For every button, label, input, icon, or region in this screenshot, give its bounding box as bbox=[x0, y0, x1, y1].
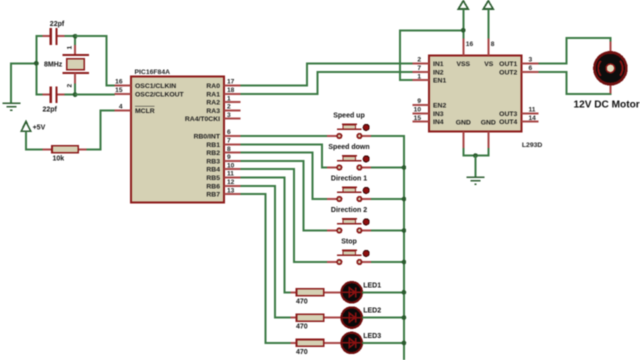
svg-text:7: 7 bbox=[417, 65, 421, 72]
motor M1 bottom pin stub bbox=[609, 85, 611, 93]
ground symbol left bbox=[2, 103, 20, 110]
svg-text:8: 8 bbox=[227, 146, 231, 153]
svg-text:IN2: IN2 bbox=[433, 69, 444, 76]
label LED3 bbox=[363, 333, 381, 340]
resistor R4 470 (LED3) bbox=[290, 340, 342, 347]
pin 1 number bbox=[227, 95, 231, 102]
svg-text:L293D: L293D bbox=[522, 142, 542, 149]
svg-text:1: 1 bbox=[227, 95, 231, 102]
IC U2 L293D body bbox=[429, 55, 521, 131]
label Stop bbox=[341, 239, 357, 246]
pin 16 name VSS bbox=[456, 61, 470, 68]
button SW2 Speed down bbox=[327, 156, 371, 170]
pin 6 name RB0/INT bbox=[194, 134, 221, 141]
pin 15 name IN4 bbox=[433, 119, 444, 126]
svg-text:14: 14 bbox=[529, 115, 537, 122]
pin 3 stub OUT1 bbox=[521, 63, 538, 65]
svg-text:OUT1: OUT1 bbox=[499, 61, 517, 68]
pin 18 name RA1 bbox=[206, 91, 220, 98]
wire: LED1 to column bbox=[362, 291, 404, 293]
wire: RB5 down to LED1 row bbox=[241, 178, 291, 293]
pin 8 number bbox=[227, 146, 231, 153]
pin 16 stub VSS (top) bbox=[462, 39, 464, 56]
wire: Direction-1 button to column bbox=[371, 198, 404, 200]
svg-text:LED3: LED3 bbox=[363, 333, 381, 340]
junction node: GND mid bbox=[473, 153, 478, 158]
label Speed down bbox=[328, 144, 369, 151]
label C2 value 22pf bbox=[43, 107, 58, 114]
svg-text:RB6: RB6 bbox=[206, 183, 220, 190]
svg-text:RB5: RB5 bbox=[206, 175, 220, 182]
wire: RB7 down to LED3 row bbox=[241, 194, 291, 343]
junction node: column at LED3 bbox=[402, 341, 407, 346]
IC U1 PIC16F84A body bbox=[131, 77, 224, 203]
pin 13 stub RB7 bbox=[224, 193, 241, 195]
svg-text:VS: VS bbox=[484, 61, 494, 68]
svg-text:10: 10 bbox=[227, 162, 235, 169]
pin 3 name OUT1 bbox=[499, 61, 517, 68]
junction node: rail to ground bbox=[34, 61, 39, 66]
pin 12 name RB6 bbox=[206, 183, 220, 190]
pin 17 stub RA0 bbox=[224, 85, 241, 87]
LED D2 bbox=[342, 307, 362, 327]
crystal pin number 2 (rotated) bbox=[67, 84, 74, 88]
svg-text:16: 16 bbox=[466, 41, 474, 48]
crystal pin number 1 (rotated) bbox=[67, 46, 74, 50]
svg-text:3: 3 bbox=[529, 57, 533, 64]
pin 1 stub EN1 bbox=[412, 79, 429, 81]
svg-text:Direction 1: Direction 1 bbox=[331, 176, 367, 183]
svg-text:IN1: IN1 bbox=[433, 61, 444, 68]
wire: common +5V column (right of buttons) bbox=[371, 136, 404, 360]
pin 12 stub RB6 bbox=[224, 185, 241, 187]
svg-text:7: 7 bbox=[227, 138, 231, 145]
label Direction 1 bbox=[331, 176, 367, 183]
svg-text:470: 470 bbox=[296, 324, 308, 331]
wire: crystal top lead bbox=[74, 35, 76, 45]
junction node: column at LED2 bbox=[402, 315, 407, 320]
capacitor C2 22pf (bottom) bbox=[43, 86, 65, 103]
wire: GND pins joined bbox=[463, 148, 488, 156]
pin 16 number bbox=[115, 79, 123, 86]
svg-text:EN1: EN1 bbox=[433, 78, 446, 85]
pin 10 number bbox=[227, 162, 235, 169]
wire: C1 right to crystal-top node bbox=[65, 35, 76, 37]
wire: C2 right to crystal-bottom node bbox=[65, 94, 76, 96]
junction node: column at Direction-1 bbox=[402, 197, 407, 202]
svg-text:RB1: RB1 bbox=[206, 142, 220, 149]
pin 6 number bbox=[529, 65, 533, 72]
pin 10 name RB4 bbox=[206, 167, 220, 174]
pin 11 stub RB5 bbox=[224, 177, 241, 179]
wire: RB3 to Direction-2 button bbox=[241, 161, 327, 231]
svg-text:LED2: LED2 bbox=[363, 308, 381, 315]
svg-text:2: 2 bbox=[417, 57, 421, 64]
pin 6 number bbox=[227, 129, 231, 136]
svg-text:470: 470 bbox=[296, 349, 308, 356]
junction node: column at LED1 bbox=[402, 290, 407, 295]
label LED1 bbox=[363, 282, 381, 289]
svg-text:Speed down: Speed down bbox=[328, 144, 369, 151]
pin 4 stub MCLR bbox=[115, 109, 131, 111]
pin 13 name RB7 bbox=[206, 192, 220, 199]
svg-text:12: 12 bbox=[227, 179, 235, 186]
LED D3 bbox=[342, 333, 362, 353]
wire: crystal-top node to OSC1 (pin16) bbox=[75, 36, 115, 85]
pin 8 name RB2 bbox=[206, 150, 220, 157]
wire: crystal-bottom node to OSC2 (pin15) bbox=[75, 93, 115, 95]
pin 11 name RB5 bbox=[206, 175, 220, 182]
svg-text:RA1: RA1 bbox=[206, 91, 220, 98]
wire: +5V rail to EN1 bbox=[400, 30, 463, 80]
svg-text:4: 4 bbox=[119, 104, 123, 111]
pin 4 name MCLR (overbar) bbox=[135, 106, 155, 115]
svg-text:1: 1 bbox=[67, 46, 74, 50]
svg-text:11: 11 bbox=[529, 107, 536, 114]
pin 15 number bbox=[414, 115, 422, 122]
junction node: C2/crystal/OSC2 bbox=[73, 92, 78, 97]
pin 9 name EN2 bbox=[433, 103, 446, 110]
svg-text:1: 1 bbox=[417, 73, 421, 80]
svg-text:RB2: RB2 bbox=[206, 150, 220, 157]
crystal X1 8MHz bbox=[63, 45, 89, 85]
svg-text:2: 2 bbox=[227, 104, 231, 111]
svg-text:IN3: IN3 bbox=[433, 111, 444, 118]
label motor 12V DC Motor bbox=[574, 100, 640, 111]
pin 7 stub IN2 bbox=[412, 71, 429, 73]
svg-text:OUT2: OUT2 bbox=[499, 69, 517, 76]
pin 4 number bbox=[119, 104, 123, 111]
capacitor C1 22pf (top) bbox=[43, 28, 65, 45]
svg-text:22pf: 22pf bbox=[50, 21, 65, 28]
pin 9 name RB3 bbox=[206, 158, 220, 165]
pin 6 stub OUT2 bbox=[521, 71, 538, 73]
svg-text:10k: 10k bbox=[53, 155, 65, 162]
pin 10 stub IN3 bbox=[412, 112, 429, 114]
wire: Stop button to column bbox=[371, 261, 404, 263]
junction node: column at Stop bbox=[402, 260, 407, 265]
svg-text:PIC16F84A: PIC16F84A bbox=[135, 69, 171, 76]
pin 6 name OUT2 bbox=[499, 69, 517, 76]
wire: rail to ground horizontal bbox=[10, 62, 36, 64]
svg-text:3: 3 bbox=[227, 112, 231, 119]
pin 10 stub RB4 bbox=[224, 168, 241, 170]
wire: Speed-down button to column bbox=[371, 167, 404, 169]
wire: GND drop bbox=[474, 156, 476, 177]
pin 1 name RA2 bbox=[206, 100, 220, 107]
wire: crystal bottom lead bbox=[74, 84, 76, 96]
pin 1 number bbox=[417, 73, 421, 80]
pin 18 number bbox=[227, 87, 235, 94]
pin 2 number bbox=[417, 57, 421, 64]
pin 3 stub RA4/T0CKI bbox=[224, 118, 241, 120]
label X1 value 8MHz bbox=[44, 62, 63, 69]
resistor R1 10k bbox=[43, 146, 87, 153]
svg-text:OUT4: OUT4 bbox=[499, 119, 517, 126]
wire: R1 to MCLR (pin4) bbox=[87, 110, 115, 149]
svg-text:OSC2/CLKOUT: OSC2/CLKOUT bbox=[135, 91, 185, 98]
pin 6 stub RB0/INT bbox=[224, 135, 241, 137]
svg-text:12V DC Motor: 12V DC Motor bbox=[574, 100, 640, 111]
svg-text:2: 2 bbox=[67, 84, 74, 88]
pin 1 stub RA2 bbox=[224, 101, 241, 103]
svg-text:IN4: IN4 bbox=[433, 119, 444, 126]
pin 15 stub OSC2/CLKOUT bbox=[115, 93, 131, 95]
pin 8 number (VS) bbox=[491, 41, 495, 48]
label U2 title L293D bbox=[522, 142, 542, 149]
wire: RB2 to Direction-1 button bbox=[241, 153, 327, 199]
pin 14 number bbox=[529, 115, 537, 122]
pin 11 number bbox=[529, 107, 536, 114]
wire: RA1 to IN2 bbox=[241, 72, 413, 94]
pin 2 number bbox=[227, 104, 231, 111]
svg-text:9: 9 bbox=[417, 98, 421, 105]
pin 7 number bbox=[417, 65, 421, 72]
pin 7 stub RB1 bbox=[224, 143, 241, 145]
svg-text:6: 6 bbox=[227, 129, 231, 136]
wire: RB1 to Speed-down button bbox=[241, 144, 327, 167]
svg-text:MCLR: MCLR bbox=[135, 108, 155, 115]
label U1 title PIC16F84A bbox=[135, 69, 171, 76]
pin 3 number bbox=[227, 112, 231, 119]
pin 18 stub RA1 bbox=[224, 93, 241, 95]
svg-text:470: 470 bbox=[296, 298, 308, 305]
pin 2 stub IN1 bbox=[412, 63, 429, 65]
button SW4 Direction 2 bbox=[327, 219, 371, 233]
svg-text:GND: GND bbox=[481, 120, 496, 127]
svg-text:RA4/T0CKI: RA4/T0CKI bbox=[185, 116, 220, 123]
svg-text:17: 17 bbox=[227, 79, 235, 86]
wire: +5V to R1 bbox=[25, 148, 43, 150]
svg-text:RB7: RB7 bbox=[206, 192, 220, 199]
svg-text:RB4: RB4 bbox=[206, 167, 220, 174]
svg-text:8: 8 bbox=[491, 41, 495, 48]
pin 9 number bbox=[227, 154, 231, 161]
pin 11 number bbox=[227, 171, 234, 178]
wire: C1 left to rail bbox=[36, 35, 42, 37]
pin 7 number bbox=[227, 138, 231, 145]
pin 15 number bbox=[115, 87, 123, 94]
pin 16 number (VSS) bbox=[466, 41, 474, 48]
svg-text:+5V: +5V bbox=[33, 125, 46, 132]
wire: OUT2 to motor bottom bbox=[539, 72, 611, 94]
svg-text:16: 16 bbox=[115, 79, 123, 86]
label R1 value 10k bbox=[53, 155, 65, 162]
wire: LED2 to column bbox=[362, 317, 404, 319]
pin 3 name RA4/T0CKI bbox=[185, 116, 220, 123]
svg-text:LED1: LED1 bbox=[363, 282, 381, 289]
pin 10 name IN3 bbox=[433, 111, 444, 118]
svg-text:Direction 2: Direction 2 bbox=[331, 207, 367, 214]
pin 2 name RA3 bbox=[206, 108, 220, 115]
pin 15 name OSC2/CLKOUT bbox=[135, 91, 185, 98]
pin 10 number bbox=[414, 107, 422, 114]
svg-text:18: 18 bbox=[227, 87, 235, 94]
svg-text:VSS: VSS bbox=[456, 61, 470, 68]
junction node: column at Speed-down bbox=[402, 165, 407, 170]
wire: RA0 to IN1 bbox=[241, 64, 413, 86]
pin 8 stub RB2 bbox=[224, 152, 241, 154]
svg-text:OSC1/CLKIN: OSC1/CLKIN bbox=[135, 83, 176, 90]
svg-text:Stop: Stop bbox=[341, 239, 357, 246]
junction node: VSS rail tap bbox=[461, 28, 466, 33]
pin 7 name RB1 bbox=[206, 142, 220, 149]
svg-text:9: 9 bbox=[227, 154, 231, 161]
pin 2 stub RA3 bbox=[224, 109, 241, 111]
label R2 value 470 bbox=[296, 298, 308, 305]
pin 1 name EN1 bbox=[433, 78, 446, 85]
pin 9 stub RB3 bbox=[224, 160, 241, 162]
LED D1 bbox=[342, 282, 362, 302]
GND stub right (pin under VS) bbox=[487, 131, 489, 148]
wire: LED3 to column bbox=[362, 342, 404, 344]
pin 8 stub VS (top) bbox=[487, 39, 489, 56]
resistor R3 470 (LED2) bbox=[290, 314, 342, 321]
motor M1 top pin stub bbox=[609, 42, 611, 52]
svg-text:8MHz: 8MHz bbox=[44, 62, 63, 69]
power arrow VS +V bbox=[483, 1, 493, 39]
svg-text:RB0/INT: RB0/INT bbox=[194, 134, 221, 141]
svg-text:22pf: 22pf bbox=[43, 107, 58, 114]
pin 17 number bbox=[227, 79, 235, 86]
svg-text:RA0: RA0 bbox=[206, 83, 220, 90]
label LED2 bbox=[363, 308, 381, 315]
button SW1 Speed up bbox=[327, 124, 371, 138]
svg-text:10: 10 bbox=[414, 107, 422, 114]
svg-text:RB3: RB3 bbox=[206, 158, 220, 165]
wire: C2 left to rail bbox=[36, 94, 42, 96]
pin 13 number bbox=[227, 187, 235, 194]
label C1 value 22pf bbox=[50, 21, 65, 28]
pin 11 stub OUT3 bbox=[521, 112, 538, 114]
pin 14 name OUT4 bbox=[499, 119, 517, 126]
pin 16 name OSC1/CLKIN bbox=[135, 83, 176, 90]
motor M1 body bbox=[595, 52, 627, 84]
wire: left vertical rail joining both 22pf caps bbox=[35, 35, 37, 95]
pin 14 stub OUT4 bbox=[521, 121, 538, 123]
GND stub left (pin under VSS) bbox=[462, 131, 464, 148]
pin 15 stub IN4 bbox=[412, 121, 429, 123]
ground symbol under L293D bbox=[466, 177, 484, 184]
wire: RB0 to Speed-up button bbox=[241, 135, 327, 137]
svg-text:15: 15 bbox=[414, 115, 422, 122]
label Direction 2 bbox=[331, 207, 367, 214]
pin 16 stub OSC1/CLKIN bbox=[115, 85, 131, 87]
svg-text:Speed up: Speed up bbox=[333, 113, 365, 120]
pin 9 stub EN2 bbox=[412, 104, 429, 106]
pin 9 number bbox=[417, 98, 421, 105]
resistor R2 470 (LED1) bbox=[290, 289, 342, 296]
junction node: column at Direction-2 bbox=[402, 228, 407, 233]
pin GND name (right bottom) bbox=[481, 120, 496, 127]
power arrow VSS +V bbox=[458, 1, 468, 39]
svg-text:EN2: EN2 bbox=[433, 103, 446, 110]
pin 3 number bbox=[529, 57, 533, 64]
power +5V symbol bbox=[21, 122, 31, 151]
wire: RB4 to Stop button bbox=[241, 169, 327, 262]
button SW5 Stop bbox=[327, 250, 371, 264]
svg-text:15: 15 bbox=[115, 87, 123, 94]
svg-text:RA3: RA3 bbox=[206, 108, 220, 115]
pin 2 name IN1 bbox=[433, 61, 444, 68]
wire: OUT1 to motor top bbox=[539, 38, 611, 63]
svg-text:11: 11 bbox=[227, 171, 234, 178]
label Speed up bbox=[333, 113, 365, 120]
svg-text:OUT3: OUT3 bbox=[499, 111, 517, 118]
pin 12 number bbox=[227, 179, 235, 186]
svg-text:RA2: RA2 bbox=[206, 100, 220, 107]
pin 7 name IN2 bbox=[433, 69, 444, 76]
junction node: C1/crystal/OSC1 bbox=[73, 34, 78, 39]
svg-text:GND: GND bbox=[456, 120, 471, 127]
wire: ground drop vertical bbox=[10, 63, 12, 103]
pin 11 name OUT3 bbox=[499, 111, 517, 118]
wire: Direction-2 button to column bbox=[371, 230, 404, 232]
button SW3 Direction 1 bbox=[327, 187, 371, 201]
label R3 value 470 bbox=[296, 324, 308, 331]
pin 8 name VS bbox=[484, 61, 494, 68]
label +5V bbox=[33, 125, 46, 132]
label R4 value 470 bbox=[296, 349, 308, 356]
wire: RB6 down to LED2 row bbox=[241, 186, 291, 318]
pin 17 name RA0 bbox=[206, 83, 220, 90]
pin GND name (left bottom) bbox=[456, 120, 471, 127]
svg-text:6: 6 bbox=[529, 65, 533, 72]
svg-text:13: 13 bbox=[227, 187, 235, 194]
